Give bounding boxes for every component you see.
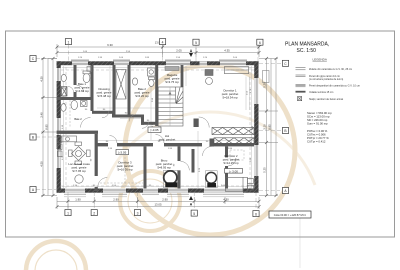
grid dashed axis lines [36, 45, 282, 212]
svg-text:PLAN MANSARDA,: PLAN MANSARDA, [285, 42, 329, 48]
svg-text:LEGENDA: LEGENDA [313, 57, 327, 61]
svg-text:6.30: 6.30 [107, 43, 113, 47]
svg-text:1.90: 1.90 [75, 197, 81, 201]
section marker A top [189, 49, 193, 57]
note box [269, 211, 311, 218]
svg-text:S=12.25 mp: S=12.25 mp [223, 161, 239, 165]
lower-left bath door arc [81, 118, 91, 128]
title [285, 42, 329, 54]
magazie shelf [165, 67, 179, 71]
svg-text:S=3.75 mp: S=3.75 mp [165, 80, 179, 84]
grid bubbles left [30, 56, 36, 193]
dimension chains: bottom [57, 197, 259, 209]
watermark stamp circles [26, 65, 315, 270]
svg-text:5.25: 5.25 [263, 167, 267, 173]
exterior wall: right [254, 61, 258, 192]
dressing shelves [116, 70, 126, 100]
svg-text:Stalpi, samburi de beton armat: Stalpi, samburi de beton armat [309, 98, 343, 101]
svg-text:pard. parchet: pard. parchet [159, 137, 176, 141]
svg-text:2.90: 2.90 [113, 197, 119, 201]
svg-text:S=8.95 mp: S=8.95 mp [157, 165, 171, 169]
svg-text:2: 2 [93, 211, 95, 215]
baie1 washing machine [87, 67, 92, 72]
svg-text:5: 5 [195, 41, 197, 45]
svg-text:5: 5 [193, 212, 195, 216]
window openings bottom wall [64, 188, 244, 194]
interior thin dimension lines texture [62, 66, 254, 188]
page frame [6, 31, 395, 237]
svg-text:4.30: 4.30 [223, 197, 229, 201]
micro dimension numbers along walls [62, 51, 254, 187]
shaft with X top-left [62, 87, 68, 97]
window openings top wall [71, 60, 247, 65]
dormitor1 desk + chair + wardrobe [205, 67, 250, 111]
velux dashed rectangles [70, 100, 244, 186]
stair direction arrow [169, 91, 172, 95]
svg-text:8.85: 8.85 [44, 124, 48, 130]
roof slope dashed lines [61, 62, 254, 192]
dimension chains: right [259, 59, 278, 196]
svg-text:4.30: 4.30 [39, 76, 43, 82]
svg-text:3.10: 3.10 [263, 124, 267, 130]
svg-text:13.05: 13.05 [155, 203, 162, 207]
dimension chains: left [41, 59, 57, 196]
svg-text:S=18.34 mp: S=18.34 mp [222, 95, 238, 99]
svg-text:▷ 3.00: ▷ 3.00 [229, 169, 238, 173]
svg-text:3.40: 3.40 [39, 112, 43, 118]
areas block [307, 111, 332, 144]
svg-text:▷3.05: ▷3.05 [150, 128, 158, 132]
svg-text:2.90: 2.90 [162, 197, 168, 201]
section marker A bottom [189, 196, 193, 207]
fixtures: lower-left bath wc + washer + sink [61, 100, 87, 111]
exterior wall: top [57, 61, 259, 65]
exterior chimney right [263, 71, 270, 83]
dormitor2 bed [226, 177, 254, 191]
soba / stove fixtures [164, 170, 218, 188]
window sub-dimension lines above top wall [64, 59, 247, 197]
door swing arcs [68, 85, 236, 187]
svg-text:2.05: 2.05 [176, 49, 182, 53]
dining table + chairs [69, 86, 93, 183]
svg-text:Cota ±0.00 = +126.57 M.N.: Cota ±0.00 = +126.57 M.N. [274, 213, 307, 217]
svg-text:6: 6 [255, 212, 257, 216]
grid bubbles bottom [65, 210, 259, 217]
svg-text:(cu structura portanta de lemn: (cu structura portanta de lemn) [309, 78, 343, 81]
level marker boxes [116, 127, 243, 173]
grid bubbles top [65, 39, 263, 46]
fixtures: Baie 2 sink + wc + shower [132, 68, 155, 86]
svg-text:4: 4 [162, 40, 164, 44]
svg-text:S=7.95 mp: S=7.95 mp [72, 169, 86, 173]
svg-text:8.85: 8.85 [268, 124, 272, 130]
svg-text:4.35: 4.35 [224, 49, 230, 53]
svg-text:S=6.20 mp: S=6.20 mp [135, 94, 149, 98]
exterior wall: bottom [57, 189, 259, 193]
svg-text:S=4.60 mp: S=4.60 mp [75, 89, 89, 93]
svg-text:1: 1 [67, 211, 69, 215]
svg-text:CUTpr = 0.412: CUTpr = 0.412 [307, 140, 326, 144]
fixtures: Baie 1 wc + sink [61, 71, 90, 96]
dimension chains: top [57, 44, 259, 57]
svg-text:SC. 1:50: SC. 1:50 [297, 48, 317, 54]
window openings left wall [56, 68, 61, 168]
legend rows [296, 68, 360, 101]
svg-text:5.20: 5.20 [263, 82, 267, 88]
svg-text:S=5.48 mp: S=5.48 mp [97, 94, 111, 98]
window openings right wall [254, 78, 259, 176]
wardrobe bars mid right [212, 128, 254, 145]
svg-text:3: 3 [137, 211, 139, 215]
interior walls [57, 65, 254, 191]
svg-text:6: 6 [259, 41, 261, 45]
svg-text:S=16.05 mp: S=16.05 mp [117, 167, 133, 171]
svg-text:Pereti despartitori din carami: Pereti despartitori din caramida cu G.V.… [309, 85, 360, 88]
exterior wall: left [57, 61, 61, 192]
room labels [68, 73, 239, 173]
svg-text:▷3.05: ▷3.05 [118, 151, 126, 155]
svg-text:Sum = 91.00 mp: Sum = 91.00 mp [307, 122, 328, 126]
svg-text:1: 1 [67, 40, 69, 44]
kitchen counter [58, 136, 77, 157]
svg-text:Baie 2: Baie 2 [74, 117, 82, 121]
scan artifact line [299, 211, 301, 268]
stair [158, 87, 183, 126]
grid bubbles right [282, 60, 288, 193]
svg-text:Izolatie termica 15 cm: Izolatie termica 15 cm [309, 91, 333, 94]
svg-text:4.50: 4.50 [39, 161, 43, 167]
svg-text:Zidarie din caramida cu G.V. 3: Zidarie din caramida cu G.V. 30, 25 cm [309, 68, 352, 71]
